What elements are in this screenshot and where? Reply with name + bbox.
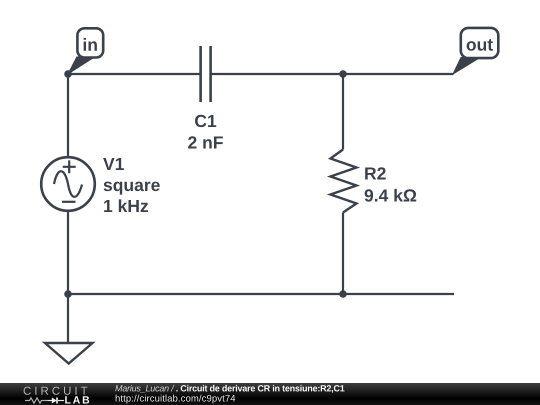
wire ground stub xyxy=(67,294,69,343)
wire V1 bottom to bottom rail xyxy=(67,211,69,295)
logo diode glyph xyxy=(48,398,65,404)
wire top-left: node in to capacitor xyxy=(68,73,200,75)
circuitlab logo xyxy=(0,382,540,405)
wire capacitor to out end xyxy=(212,73,454,75)
wire R2 bottom lead xyxy=(342,213,344,295)
logo text CIRCUIT xyxy=(24,387,88,395)
label C1 value xyxy=(188,115,223,149)
node in junction dot xyxy=(64,70,72,78)
footer bar xyxy=(0,383,540,405)
wire R2 top lead xyxy=(342,74,344,150)
net flag out xyxy=(453,28,498,74)
ground xyxy=(45,343,93,364)
footer url line 2 xyxy=(116,395,236,404)
footer credit line 1 xyxy=(115,385,344,393)
logo resistor glyph xyxy=(25,398,48,403)
wire bottom rail xyxy=(68,293,454,295)
net flag in xyxy=(68,28,103,74)
resistor R2 xyxy=(331,150,357,213)
label V1 value xyxy=(103,158,160,212)
node top-right junction dot xyxy=(339,70,347,78)
wire left vertical: node in to V1 top xyxy=(67,74,69,158)
voltage source V1 xyxy=(41,157,95,211)
label R2 value xyxy=(365,167,417,201)
logo text LAB xyxy=(65,396,89,403)
node bottom-left junction dot xyxy=(64,290,72,298)
node bottom-right junction dot xyxy=(339,290,347,298)
capacitor C1 xyxy=(201,46,211,102)
